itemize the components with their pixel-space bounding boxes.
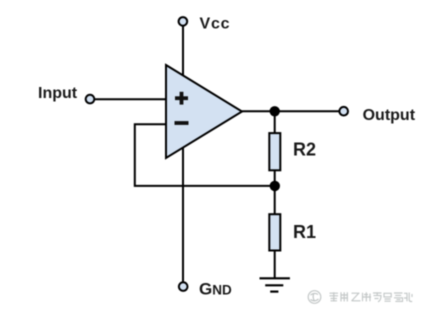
terminal Input — [86, 95, 95, 104]
svg-text:GND: GND — [199, 280, 232, 299]
watermark logo — [308, 291, 321, 304]
op-amp minus pin marker — [175, 121, 189, 125]
svg-text:Vcc: Vcc — [200, 16, 231, 33]
wire node to R1 top — [274, 186, 276, 215]
wire feedback from inverting pin to R1/R2 node — [135, 124, 275, 186]
wire input to non-inverting pin — [95, 98, 167, 100]
terminal GND — [179, 282, 188, 291]
terminal Output — [339, 107, 348, 116]
wire R2 bottom to node — [274, 169, 276, 186]
node junction dot between R1 and R2 — [270, 181, 280, 191]
svg-text:Output: Output — [363, 107, 416, 124]
wire output node down to R2 — [274, 111, 276, 134]
wire Vcc/GND vertical through op-amp — [182, 26, 184, 283]
wire R1 bottom to ground — [274, 250, 276, 278]
node junction dot at output — [270, 106, 280, 116]
terminal Vcc — [179, 17, 188, 26]
svg-text:Input: Input — [38, 85, 78, 102]
wire output from op-amp tip — [242, 110, 340, 112]
ground — [260, 278, 290, 291]
op-amp plus pin marker — [175, 92, 188, 105]
watermark text strokes — [330, 292, 413, 302]
svg-text:R1: R1 — [293, 222, 316, 242]
resistor R1 — [269, 214, 280, 250]
svg-text:R2: R2 — [293, 140, 316, 160]
resistor R2 — [269, 133, 280, 170]
op-amp U1 — [166, 65, 242, 158]
